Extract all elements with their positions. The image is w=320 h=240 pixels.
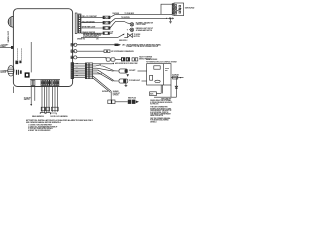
internal fuse blocks [15, 61, 18, 65]
dashed wire 2 [20, 49, 22, 62]
right connector strip 2 [78, 14, 81, 33]
svg-text:BRN: BRN [76, 74, 79, 76]
terminal pins group 2 [41, 80, 52, 86]
wire B3 [74, 67, 86, 69]
harness drop wires right [53, 87, 58, 112]
valet dark connector cluster [121, 57, 130, 61]
wire R3 parking lights [81, 27, 103, 29]
bottom bus wire [154, 96, 176, 98]
splice connector R1 [103, 16, 110, 19]
cylinder connector C2 [119, 79, 128, 83]
main control unit U1 [13, 9, 72, 87]
svg-text:OUTPUT: OUTPUT [0, 72, 6, 74]
siren horn arc on left edge [8, 16, 13, 27]
wire H2 [74, 77, 86, 79]
antenna wire [30, 42, 32, 72]
splice connector R4 [103, 32, 110, 35]
diode D3 [175, 86, 178, 88]
bullet connector R10 [74, 56, 77, 59]
wire R2 to diode node [110, 19, 167, 23]
relay contacts [175, 5, 177, 15]
vertical wire V1 [170, 85, 172, 97]
wire R3 to lamps [110, 21, 130, 28]
relay inner contact [163, 64, 165, 85]
svg-text:SWITCH: SWITCH [24, 99, 30, 101]
relay pin strip [172, 4, 174, 15]
valet plug outline pair [132, 58, 138, 61]
terminal pins group 3 [53, 80, 59, 86]
svg-text:DOOR KIT: DOOR KIT [113, 93, 120, 95]
relay R2 top right [174, 3, 184, 16]
pin pair P7 [71, 44, 73, 47]
wire B1 [74, 63, 86, 65]
right connector strip 1 [75, 13, 77, 34]
svg-text:BLU: BLU [76, 67, 78, 69]
svg-text:1. CONNECT GROUND WIRE FIRST: 1. CONNECT GROUND WIRE FIRST [28, 125, 52, 127]
relay oval [155, 80, 160, 82]
svg-text:WHT: WHT [76, 71, 79, 73]
wire B4 to bullet connector [74, 69, 86, 71]
inline connector right [51, 107, 58, 111]
connector blob on left edge [11, 46, 14, 49]
svg-text:TO DOME LIGHT: TO DOME LIGHT [129, 80, 140, 82]
relay feed wire top [161, 4, 174, 14]
lamp L1 [130, 23, 133, 26]
bottom terminal rail [30, 79, 60, 81]
ground arrow under C1 [126, 74, 129, 77]
wire R6 to horn [81, 36, 118, 38]
svg-text:SEE OWNERS MANUAL BEFORE WIRIN: SEE OWNERS MANUAL BEFORE WIRING 4 A [26, 121, 62, 124]
svg-text:SIREN OUT: SIREN OUT [8, 30, 10, 42]
svg-text:TO POWER DOOR LOCK CONTROL SYS: TO POWER DOOR LOCK CONTROL SYSTEM [146, 62, 177, 64]
connector R9 end [104, 50, 110, 53]
internal relay bars [16, 70, 22, 75]
ground bars under C2 [125, 83, 128, 86]
wire R10 [77, 57, 106, 59]
svg-text:TO FUSE BOX: TO FUSE BOX [125, 13, 135, 15]
splice connector R3 [103, 27, 110, 30]
pin pair P9 [71, 50, 73, 53]
svg-text:GREEN H/U: GREEN H/U [77, 39, 85, 41]
svg-text:OPTION: OPTION [113, 95, 118, 97]
relay module box [147, 64, 171, 85]
bullet connector R9 [74, 50, 77, 53]
svg-text:TO HORN: TO HORN [134, 34, 141, 36]
cylinder connector C1 [119, 69, 128, 73]
inline connectors center [41, 107, 45, 111]
relay inner element [150, 75, 153, 80]
svg-text:WHT/BLK: WHT/BLK [102, 91, 108, 93]
diagonal harness wires [93, 76, 112, 93]
wire R2 ignition [81, 22, 103, 24]
svg-text:GRN: GRN [76, 62, 79, 64]
corner stub wire [13, 87, 15, 94]
svg-text:12V SIREN: 12V SIREN [0, 70, 7, 72]
inline fuse on wire [173, 76, 178, 79]
valet plug pair [106, 58, 115, 61]
svg-text:CIRCUIT FEED: CIRCUIT FEED [136, 24, 147, 26]
junction dot [180, 77, 181, 78]
drop wire 2 [34, 87, 36, 101]
svg-text:CONNECT TO THE DOOR TRIGGER CI: CONNECT TO THE DOOR TRIGGER CIRCUIT [126, 46, 158, 48]
vertical wire V2 with diode [175, 78, 177, 98]
horn switch [118, 34, 124, 37]
arrow tip [136, 101, 139, 104]
svg-text:THE UNIT IS WIRED PER: THE UNIT IS WIRED PER [150, 107, 168, 109]
wire 12V input at left edge [0, 46, 13, 48]
wire B6 to cylinder C2 [74, 73, 86, 75]
wire from relay box [171, 77, 184, 79]
lower pin strip [71, 63, 74, 79]
svg-text:12V: 12V [96, 39, 99, 41]
splice connector R2 [103, 21, 110, 24]
antenna drop wire with arrow [30, 87, 32, 105]
pin pair P10 [71, 56, 73, 59]
bottom right note paragraph [150, 99, 173, 123]
dark plug pair [128, 100, 136, 104]
wire H1 [74, 75, 86, 77]
svg-text:GROUND: GROUND [185, 8, 195, 10]
lamp L2 [130, 28, 133, 31]
bullet connector R7 [74, 43, 77, 46]
plug row bottom [108, 100, 115, 104]
LED indicator (black square) [25, 72, 30, 77]
wire R4 [81, 32, 103, 34]
chassis ground under diode [169, 18, 172, 23]
wire B5 [74, 71, 86, 73]
svg-text:SEE NOTE 2: SEE NOTE 2 [119, 40, 128, 42]
node dot with note [113, 63, 114, 64]
horn symbol [128, 33, 133, 37]
diode D1 [168, 17, 171, 19]
svg-text:BUTTON: BUTTON [134, 36, 140, 38]
harness drop [110, 91, 112, 100]
svg-text:FUSED: FUSED [0, 46, 6, 48]
svg-text:CUT: CUT [110, 32, 113, 34]
svg-text:YELLOW IGNITION: YELLOW IGNITION [82, 21, 95, 23]
wire R7 door trigger [77, 44, 115, 46]
relay box drops [161, 85, 162, 93]
terminal pins group 1 [31, 80, 35, 86]
connector arrow R7 [115, 44, 121, 46]
wire R1 +12V constant [81, 16, 103, 18]
svg-text:TO IGNITION: TO IGNITION [121, 17, 130, 19]
harness drop wires center [42, 87, 49, 113]
wire R9 [77, 50, 104, 52]
wire B2 with switch [74, 65, 86, 67]
svg-text:KIT P/N 775: KIT P/N 775 [150, 104, 158, 106]
small labeled box [150, 92, 157, 96]
junction node [166, 18, 167, 19]
bracket under connectors [40, 113, 50, 114]
wire R1 to relay [110, 14, 172, 17]
relay coil rect [154, 66, 160, 69]
dashed internal wires [17, 49, 19, 62]
svg-text:GROUND PT: GROUND PT [161, 98, 172, 100]
buzzer (hatched ellipse) on left edge [8, 66, 14, 76]
diode D2 [171, 17, 174, 19]
